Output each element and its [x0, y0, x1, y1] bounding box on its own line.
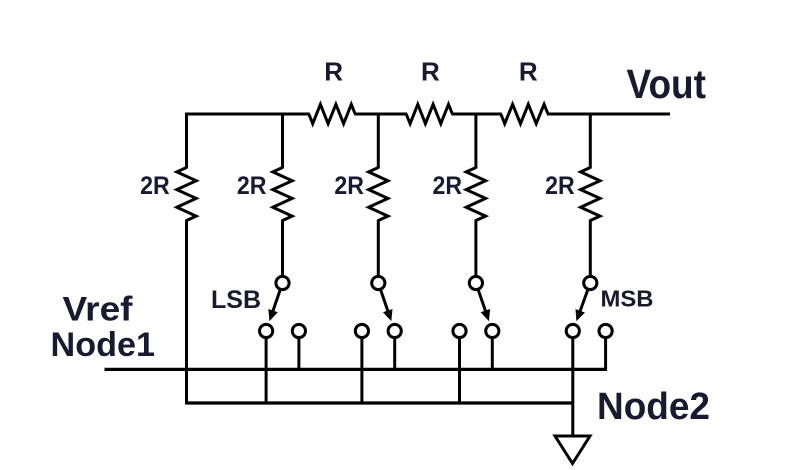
switch S2 throw terminal to Node2 [355, 324, 368, 337]
switch S4 (MSB) arm (arrow to Node2 throw) [580, 289, 589, 313]
wire: top bus, left segment (Node A to R1) [187, 113, 310, 116]
switch S1 (LSB) throw terminal to Node1 [292, 324, 305, 337]
resistor R3 (R, series) [501, 104, 548, 123]
resistor R4 (2R, leftmost branch) [177, 168, 196, 221]
svg-text:R: R [421, 57, 440, 87]
svg-text:Vout: Vout [627, 61, 707, 107]
wire: Node2 rail [187, 401, 574, 404]
switch S1 (LSB) throw terminal to Node2 [260, 324, 273, 337]
switch S4 (MSB) throw terminal to Node2 [566, 324, 579, 337]
svg-text:Vref: Vref [63, 291, 134, 329]
switch S1 (LSB) pole terminal [276, 276, 289, 289]
wire: branch 1 from top bus down to R4 [185, 113, 188, 169]
switch S3 pole terminal [469, 276, 482, 289]
resistor R5 (2R, branch 2) [273, 168, 292, 221]
svg-text:2R: 2R [433, 172, 463, 200]
svg-text:LSB: LSB [211, 286, 261, 314]
switch S3 arm (arrow to Node1 throw) [478, 289, 486, 312]
wire: R7 bottom to switch S3 pole [474, 220, 477, 277]
switch S2 pole terminal [372, 276, 385, 289]
switch S2 arm (arrow to Node1 throw) [380, 289, 388, 312]
resistor R6 (2R, branch 3) [369, 168, 388, 221]
wire: S1 (LSB) Node1-throw stem down to Node1 rail [297, 338, 300, 371]
wire: branch 5 from top bus down to R8 [589, 113, 592, 169]
wire: branch 3 from top bus down to R6 [377, 113, 380, 169]
wire: Node1 rail (Vref bus) [105, 368, 607, 371]
resistor R1 (R, series) [309, 104, 355, 123]
wire: top bus between R1 and R2 [354, 113, 407, 116]
wire: S3 Node1-throw stem down to Node1 rail [491, 338, 494, 371]
switch S4 (MSB) throw terminal to Node1 [599, 324, 612, 337]
svg-text:R: R [519, 57, 538, 87]
svg-text:2R: 2R [545, 172, 575, 200]
svg-text:R: R [324, 57, 343, 87]
svg-text:Node2: Node2 [597, 386, 710, 428]
switch S1 (LSB) arm (arrow to Node2 throw) [272, 289, 280, 312]
wire: R8 bottom to switch S4 (MSB) pole [589, 220, 592, 277]
switch S3 throw terminal to Node2 [453, 324, 466, 337]
svg-text:Node1: Node1 [51, 326, 156, 364]
resistor R8 (2R, branch 5) [581, 168, 600, 221]
wire: S4 (MSB) Node2-throw stem down through Node1/Node2 rails to ground [571, 338, 574, 436]
wire: top bus between R2 and R3 [451, 113, 501, 116]
wire: S1 (LSB) Node2-throw stem down to Node2 rail (crosses Node1 rail) [265, 338, 268, 405]
wire: branch 2 from top bus down to R5 [281, 113, 284, 169]
switch S2 throw terminal to Node1 [388, 324, 401, 337]
wire: top bus to Vout terminal [547, 113, 670, 116]
svg-text:2R: 2R [237, 172, 267, 200]
wire: S3 Node2-throw stem down to Node2 rail (crosses Node1 rail) [458, 338, 461, 405]
switch S3 throw terminal to Node1 [486, 324, 499, 337]
svg-text:MSB: MSB [601, 286, 654, 312]
resistor R2 (R, series) [406, 104, 452, 123]
wire: S4 (MSB) Node1-throw stem down to Node1 rail [604, 338, 607, 371]
wire: R5 bottom to switch S1 (LSB) pole [281, 220, 284, 277]
wire: R6 bottom to switch S2 pole [377, 220, 380, 277]
wire: S2 Node1-throw stem down to Node1 rail [393, 338, 396, 371]
wire: branch 4 from top bus down to R7 [474, 113, 477, 169]
wire: branch 1 from R4 down to Node2 rail (crosses Node1 rail) [185, 220, 188, 405]
switch S4 (MSB) pole terminal [584, 276, 597, 289]
wire: S2 Node2-throw stem down to Node2 rail (crosses Node1 rail) [360, 338, 363, 405]
svg-text:2R: 2R [140, 172, 170, 200]
svg-text:2R: 2R [334, 172, 364, 200]
ground (open triangle below Node2 stem) [555, 436, 590, 464]
resistor R7 (2R, branch 4) [466, 168, 485, 221]
